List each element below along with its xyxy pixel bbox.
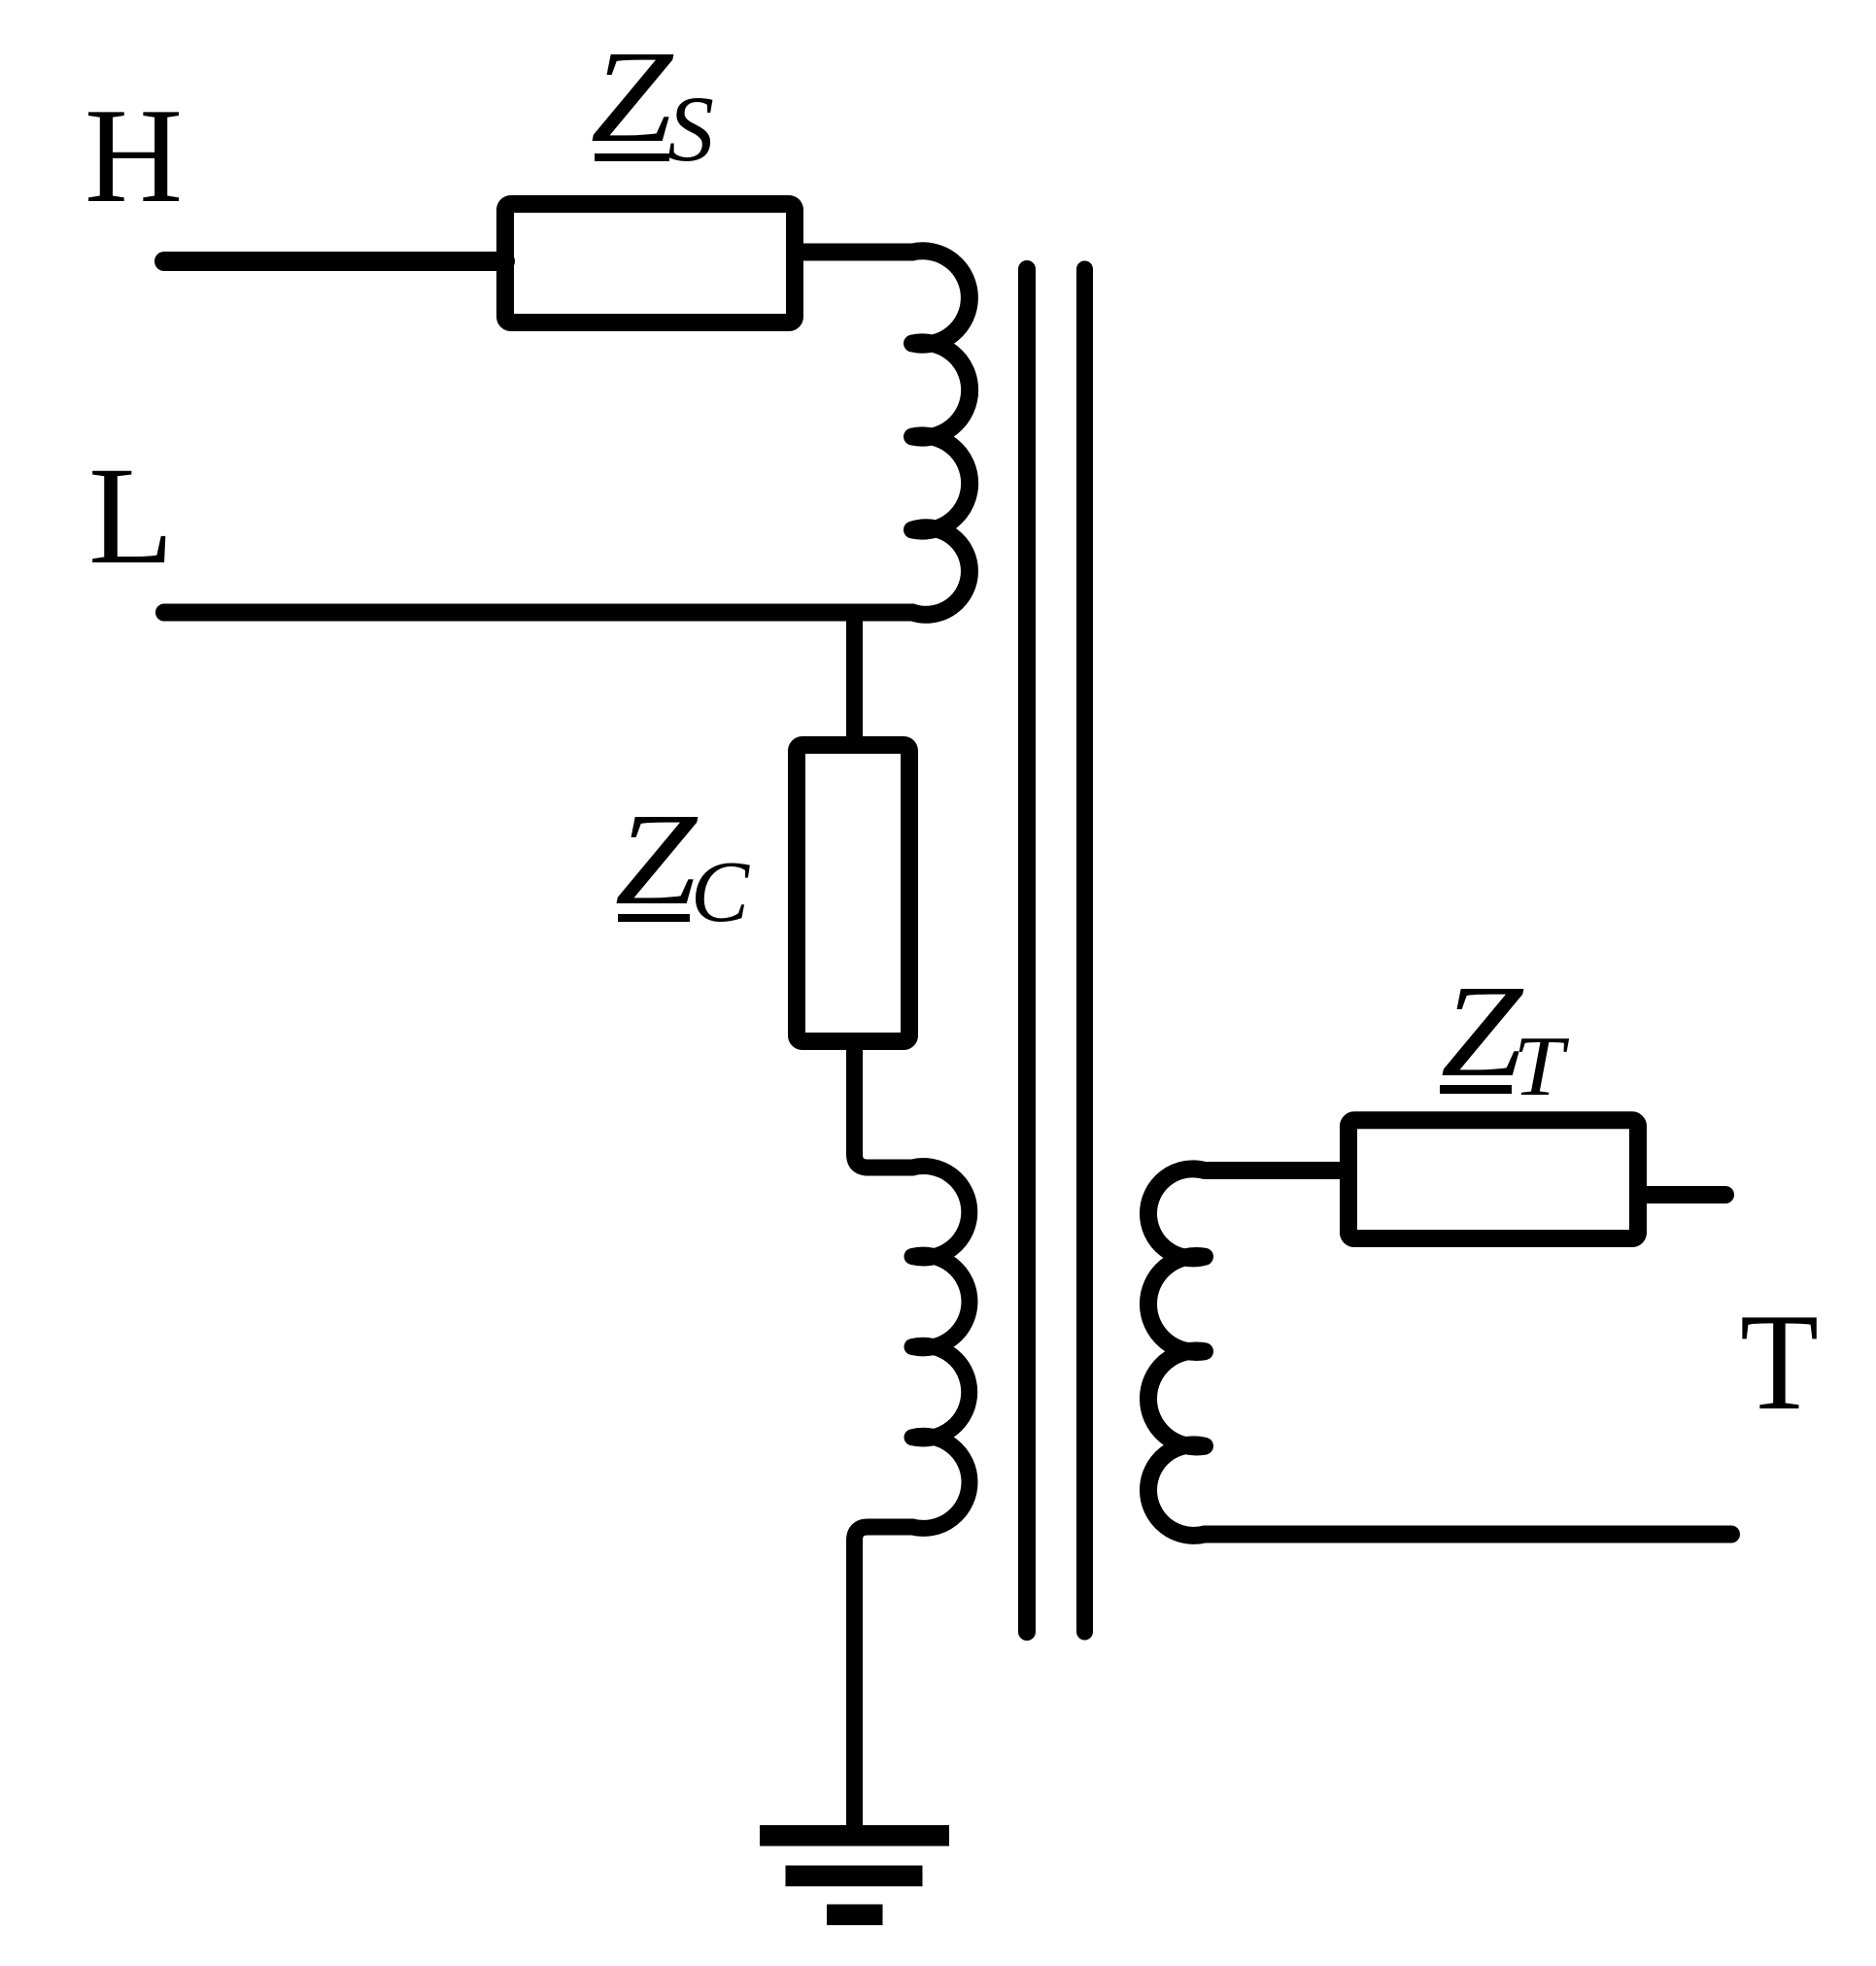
svg-text:Z: Z [615,787,699,932]
svg-text:Z: Z [591,24,674,170]
transformer core: left bar [1018,269,1036,1632]
ground: middle bar [786,1866,923,1887]
inductor winding W2 (transformer primary, left bottom) [912,1167,970,1529]
label ZC: underline of Z [618,914,690,922]
svg-text:S: S [667,77,714,181]
wire junction node L to impedance ZC [846,613,863,749]
svg-text:Z: Z [1441,959,1524,1104]
inductor winding W3 (transformer secondary, right) [1148,1169,1205,1535]
inductor winding W1 (transformer primary, left top) [912,251,970,615]
wire H terminal to resistor ZS [164,252,505,271]
resistor ZT (tertiary impedance box) [1348,1120,1638,1238]
wire resistor ZT to T terminal stub [1638,1186,1725,1203]
ground: top bar [760,1825,949,1847]
wire winding W2 down to ground [855,1527,913,1831]
impedance ZC (vertical box) [797,745,909,1041]
svg-text:H: H [85,81,183,231]
wire resistor ZT to secondary winding W3 [1205,1162,1345,1179]
svg-text:T: T [1740,1285,1819,1439]
svg-text:L: L [88,439,174,593]
ground: bottom bar [827,1905,883,1926]
svg-text:T: T [1514,1018,1570,1113]
label ZS: underline of Z [595,153,669,161]
wire impedance ZC down to winding W2 [855,1041,913,1168]
wire winding W3 bottom to T terminal [1205,1526,1731,1543]
transformer core: right bar [1076,269,1093,1632]
label ZT: underline of Z [1440,1085,1512,1094]
wire winding W1 to L terminal [164,604,912,622]
wire resistor ZS to primary winding W1 [803,244,912,261]
svg-text:C: C [691,844,750,940]
resistor ZS (series impedance box) [505,204,795,322]
